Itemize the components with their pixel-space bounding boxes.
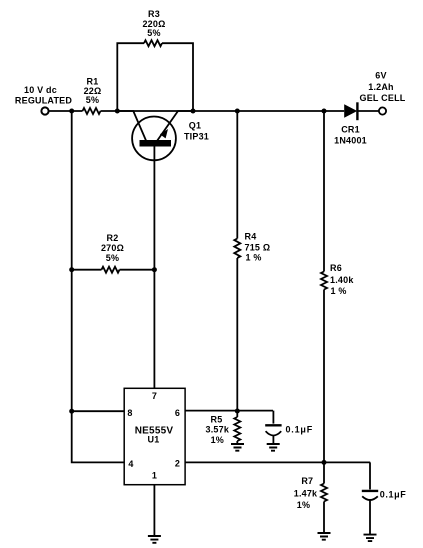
svg-text:R3: R3 [148,9,160,19]
svg-text:2: 2 [175,459,180,469]
svg-text:5%: 5% [106,253,119,263]
svg-text:1N4001: 1N4001 [334,135,367,145]
svg-text:715 Ω: 715 Ω [245,243,271,253]
svg-text:8: 8 [127,408,132,418]
svg-text:1 %: 1 % [331,286,347,296]
svg-text:1: 1 [152,471,157,481]
svg-text:4: 4 [128,459,133,469]
svg-text:1%: 1% [211,435,224,445]
svg-text:CR1: CR1 [341,125,360,135]
svg-text:R2: R2 [107,233,119,243]
svg-text:U1: U1 [148,434,160,444]
svg-text:270Ω: 270Ω [101,243,124,253]
svg-text:1.40k: 1.40k [330,275,354,285]
svg-text:7: 7 [152,391,157,401]
svg-text:REGULATED: REGULATED [15,96,72,106]
svg-text:R6: R6 [330,263,342,273]
svg-text:0.1μF: 0.1μF [380,490,407,500]
svg-text:GEL CELL: GEL CELL [360,93,406,103]
svg-text:3.57k: 3.57k [206,425,230,435]
svg-text:6V: 6V [375,70,386,80]
svg-text:1 %: 1 % [246,253,262,263]
svg-text:R5: R5 [211,414,223,424]
svg-text:1.47k: 1.47k [294,488,318,498]
svg-text:6: 6 [175,408,180,418]
svg-text:10 V dc: 10 V dc [24,85,57,95]
svg-text:R4: R4 [245,232,257,242]
svg-text:1%: 1% [297,500,310,510]
svg-text:5%: 5% [86,95,99,105]
svg-text:5%: 5% [147,28,160,38]
svg-text:R7: R7 [301,476,313,486]
svg-text:TIP31: TIP31 [184,132,209,142]
svg-text:R1: R1 [87,77,99,87]
svg-text:Q1: Q1 [189,120,201,130]
svg-text:1.2Ah: 1.2Ah [368,82,394,92]
svg-text:0.1μF: 0.1μF [286,425,314,435]
